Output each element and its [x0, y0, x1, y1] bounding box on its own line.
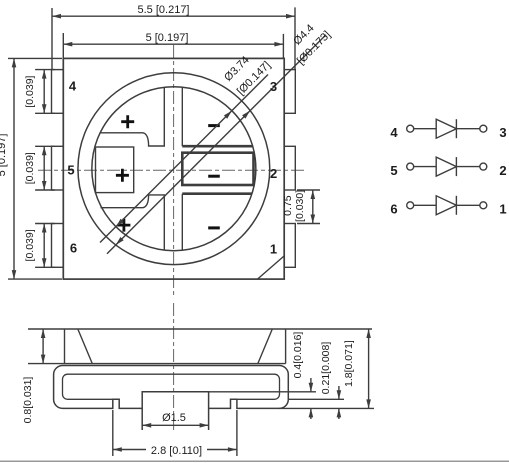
dimension 0.039 pin4: [35, 70, 55, 114]
dimension 0.039 pin5: [35, 146, 55, 190]
svg-text:2: 2: [270, 166, 277, 181]
svg-text:0.75: 0.75: [282, 195, 294, 216]
dimension 0.75 [0.030] right: [297, 190, 320, 224]
dimension Ø1.5 boss: [142, 424, 208, 426]
svg-text:3: 3: [270, 79, 277, 94]
schematic LED D2 pins 5-2: [407, 157, 487, 176]
svg-text:5.5 [0.217]: 5.5 [0.217]: [138, 4, 190, 16]
pin 2 pad (right middle): [284, 146, 295, 190]
svg-text:[0.039]: [0.039]: [24, 152, 36, 184]
svg-text:0.8[0.031]: 0.8[0.031]: [22, 377, 34, 424]
pin 5 pad (left middle): [52, 146, 64, 190]
svg-text:1.8[0.071]: 1.8[0.071]: [343, 340, 355, 387]
anode plate lower-left: [101, 195, 165, 250]
svg-text:1: 1: [270, 241, 277, 256]
cathode pad top-right: [181, 87, 183, 146]
top view: horizontal centerline: [38, 169, 307, 171]
pin 4 pad (left top): [52, 70, 64, 114]
svg-text:[0.039]: [0.039]: [24, 229, 36, 261]
package body outline: [63, 58, 284, 279]
dimension 0.8 [0.031] side left: [42, 329, 44, 364]
plus mark LED3 anode: [117, 219, 130, 232]
svg-text:2: 2: [499, 163, 506, 178]
svg-text:[0.039]: [0.039]: [24, 75, 36, 107]
side view centerline: [173, 303, 175, 430]
top view: vertical centerline: [173, 45, 175, 296]
svg-text:4: 4: [390, 125, 398, 140]
dimension 0.039 pin6: [35, 224, 55, 268]
bottom page rule: [0, 460, 509, 462]
dim text 2.8 [0.110]: [146, 443, 207, 457]
dimension 2.8 [0.110] bottom: [113, 410, 237, 456]
extension lines right of side view: [209, 392, 374, 409]
pin1 index chamfer mark: [258, 256, 285, 279]
anode plate upper-left: [100, 87, 164, 146]
svg-text:6: 6: [390, 202, 397, 217]
cathode pad middle-right: [182, 153, 253, 185]
center boss (Ø1.5): [142, 392, 208, 430]
outer lens circle (Ø4.4): [78, 73, 270, 265]
minus mark LED2 cathode: [208, 175, 220, 178]
side view lens bottom edge with left extension: [28, 363, 286, 365]
pin 3 pad (right top): [284, 70, 295, 114]
leader line diameter 4.4: [107, 35, 326, 254]
lens reflector slant right: [258, 329, 273, 364]
side view lens top edge with extension lines: [28, 328, 372, 330]
minus mark LED3 cathode: [208, 226, 220, 229]
leader line diameter 3.74: [100, 75, 268, 243]
dimension 5 [0.197] top: [63, 33, 283, 58]
dimension 5 [0.197] left vertical: [8, 58, 62, 279]
dimension 0.4 [0.016]: [310, 378, 312, 419]
svg-text:[0.030]: [0.030]: [294, 190, 306, 222]
minus mark LED1 cathode: [208, 124, 220, 127]
dimension 5.5 [0.217] top: [52, 7, 295, 70]
dimension 1.8 [0.071]: [368, 329, 370, 408]
svg-text:5 [0.197]: 5 [0.197]: [146, 32, 189, 44]
svg-text:Ø1.5: Ø1.5: [162, 412, 186, 424]
dimension 0.21 [0.008]: [338, 386, 340, 419]
cathode pad bottom-right: [182, 192, 252, 195]
anode pad middle-left: [96, 147, 134, 193]
svg-text:5: 5: [390, 163, 397, 178]
plus mark LED2 anode: [116, 169, 129, 182]
svg-text:0.21[0.008]: 0.21[0.008]: [320, 342, 332, 395]
svg-text:5: 5: [67, 162, 74, 177]
side view lens body: [65, 329, 286, 364]
plus mark LED1 anode: [121, 115, 134, 128]
svg-text:6: 6: [70, 240, 77, 255]
lead frame inner profile: [63, 374, 280, 399]
pin 6 pad (left bottom): [52, 224, 64, 268]
pin 1 pad (right bottom): [284, 224, 295, 268]
svg-text:1: 1: [499, 202, 506, 217]
schematic LED D3 pins 6-1: [407, 196, 487, 215]
svg-text:3: 3: [499, 125, 506, 140]
svg-text:4: 4: [69, 79, 77, 94]
schematic LED D1 pins 4-3: [407, 119, 487, 138]
lens reflector slant left: [78, 329, 93, 364]
svg-text:2.8 [0.110]: 2.8 [0.110]: [151, 445, 202, 457]
svg-text:5 [0.197]: 5 [0.197]: [0, 134, 8, 177]
lead frame outer profile: [54, 366, 289, 409]
inner circle (Ø3.74): [92, 87, 256, 251]
svg-text:0.4[0.016]: 0.4[0.016]: [292, 332, 304, 379]
